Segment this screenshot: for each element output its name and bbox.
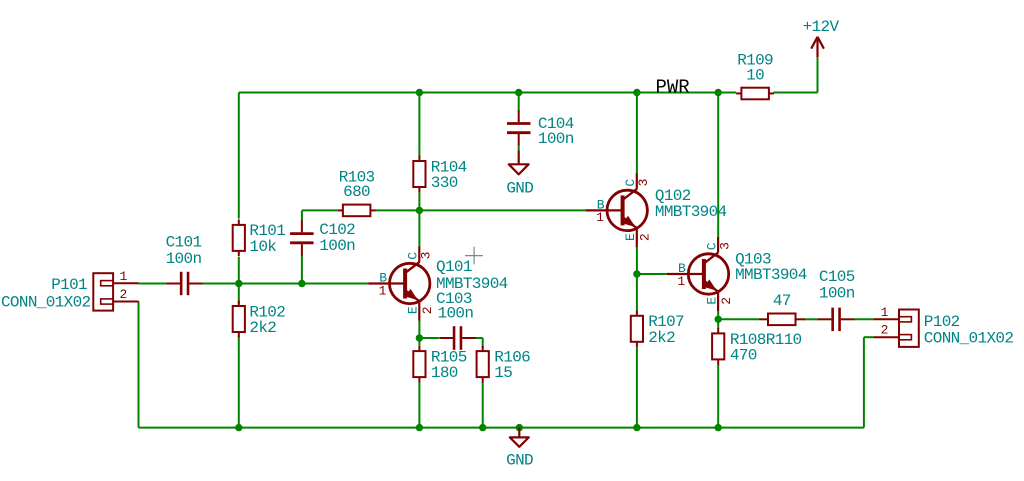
- wire to P102 pin2: [864, 336, 873, 338]
- resistor R103: [338, 205, 376, 217]
- wire output node to R108: [717, 319, 719, 328]
- junction: [633, 89, 640, 96]
- wire corner down to R106: [482, 338, 484, 348]
- wire top rail to Q102 collector: [636, 93, 638, 174]
- wire P101 pin2 down: [138, 302, 140, 428]
- svg-text:2: 2: [719, 297, 734, 305]
- resistor R104: [413, 156, 425, 193]
- ground symbol GND (bottom rail): [510, 428, 529, 447]
- svg-text:1: 1: [881, 305, 889, 320]
- capacitor C105: [818, 308, 854, 332]
- wire output node to R110: [718, 318, 759, 320]
- wire R105 to bottom rail: [418, 382, 420, 427]
- wire up to P102 pin2: [863, 337, 865, 427]
- junction: [479, 424, 486, 431]
- wire GND bottom rail: [139, 427, 864, 429]
- svg-text:680: 680: [343, 183, 370, 201]
- connector P102 (CONN_01X02): [873, 310, 919, 347]
- wire R109 to +12V corner: [774, 92, 818, 94]
- wire C102 to base node: [301, 256, 303, 284]
- Q101 pin labels B/1, C/3, E/2: [379, 252, 436, 315]
- junction: [633, 270, 640, 277]
- svg-text:3: 3: [419, 252, 434, 260]
- junction: [416, 334, 423, 341]
- wire node to R105: [418, 338, 420, 346]
- svg-text:10: 10: [746, 66, 764, 84]
- mouse crosshair cursor: [465, 247, 483, 265]
- resistor R106: [477, 346, 489, 383]
- wire top rail down to R101: [238, 93, 240, 219]
- wire R108 to bottom rail: [717, 365, 719, 428]
- junction: [715, 424, 722, 431]
- svg-text:2: 2: [881, 323, 889, 338]
- svg-text:1: 1: [119, 269, 127, 284]
- svg-text:330: 330: [431, 174, 458, 192]
- Q102 pin labels B/1, C/3, E/2: [596, 178, 653, 241]
- svg-text:2: 2: [638, 233, 653, 241]
- svg-text:100n: 100n: [438, 304, 474, 322]
- svg-text:C105: C105: [819, 268, 855, 286]
- svg-text:1: 1: [677, 274, 685, 289]
- junction: [235, 424, 242, 431]
- svg-text:E: E: [405, 306, 420, 314]
- junction: [416, 89, 423, 96]
- connector P101 (CONN_01X02): [93, 273, 138, 310]
- svg-text:10k: 10k: [249, 238, 276, 256]
- ground symbol GND (top, under C104): [509, 151, 529, 175]
- capacitor C104: [507, 110, 531, 146]
- wire Q101 emitter to node: [418, 321, 420, 339]
- svg-text:P102: P102: [924, 313, 960, 331]
- svg-text:100n: 100n: [166, 250, 202, 268]
- wire P101 pin1 to C101: [139, 283, 168, 285]
- wire C102 corner to R103: [302, 209, 338, 211]
- svg-text:15: 15: [494, 364, 512, 382]
- wire Q103 emitter to output node: [717, 311, 719, 319]
- wire R104 to node: [418, 192, 420, 210]
- wire to Q103 base lead: [637, 273, 667, 275]
- svg-text:2: 2: [420, 306, 435, 314]
- wire R110 to C105: [804, 318, 819, 320]
- wire node to R107: [636, 274, 638, 311]
- resistor R109: [736, 88, 774, 100]
- svg-text:P101: P101: [51, 276, 87, 294]
- svg-text:47: 47: [773, 292, 791, 310]
- svg-text:PWR: PWR: [656, 77, 690, 99]
- transistor Q102 (NPN MMBT3904): [586, 173, 648, 247]
- svg-text:180: 180: [431, 364, 458, 382]
- resistor R108: [712, 328, 724, 365]
- svg-text:100n: 100n: [819, 285, 855, 303]
- wire top rail to R104: [418, 93, 420, 157]
- wire C105 to P102 pin1: [854, 318, 874, 320]
- resistor R102: [233, 301, 245, 338]
- wire C101 to Q101 base lead: [202, 283, 368, 285]
- svg-text:CONN_01X02: CONN_01X02: [1, 293, 91, 311]
- svg-text:C101: C101: [166, 233, 202, 251]
- wire R102 to bottom rail: [238, 335, 240, 427]
- junction: [515, 89, 522, 96]
- resistor R110: [759, 314, 805, 326]
- svg-text:MMBT3904: MMBT3904: [735, 266, 807, 284]
- svg-text:2k2: 2k2: [249, 319, 276, 337]
- svg-text:2: 2: [119, 287, 127, 302]
- capacitor C103: [439, 326, 475, 350]
- power symbol +12V: [811, 37, 824, 57]
- svg-text:1: 1: [596, 210, 604, 225]
- junction: [416, 424, 423, 431]
- resistor R101: [233, 220, 245, 257]
- wire up to +12V symbol: [817, 57, 819, 92]
- svg-text:3: 3: [718, 242, 733, 250]
- svg-text:E: E: [623, 233, 638, 241]
- wire R103 to node: [376, 209, 420, 211]
- svg-text:GND: GND: [506, 452, 533, 470]
- capacitor C102: [290, 220, 314, 256]
- transistor Q103 (NPN MMBT3904): [667, 237, 729, 311]
- wire R106 to bottom rail: [482, 382, 484, 427]
- junction: [416, 207, 423, 214]
- wire top rail to C104: [518, 93, 520, 112]
- junction: [298, 280, 305, 287]
- svg-text:100n: 100n: [319, 237, 355, 255]
- svg-text:GND: GND: [506, 179, 533, 197]
- svg-text:+12V: +12V: [803, 18, 840, 36]
- wire C103 to R106 corner: [473, 337, 482, 339]
- resistor R105: [413, 346, 425, 383]
- wire PWR top rail: [239, 92, 736, 94]
- transistor Q101 (NPN MMBT3904): [368, 247, 430, 321]
- wire top rail to Q103 collector: [717, 93, 719, 238]
- capacitor C101: [166, 272, 202, 295]
- wire R101 to base node: [238, 257, 240, 284]
- svg-text:2k2: 2k2: [648, 329, 675, 347]
- svg-text:CONN_01X02: CONN_01X02: [924, 330, 1014, 348]
- wire node to Q102 base lead: [419, 209, 585, 211]
- resistor R107: [631, 310, 643, 347]
- svg-text:1: 1: [379, 283, 387, 298]
- svg-text:470: 470: [730, 346, 757, 364]
- junction: [715, 89, 722, 96]
- wire C104 to GND symbol: [518, 146, 520, 151]
- wire node to Q101 collector: [418, 210, 420, 246]
- svg-text:E: E: [704, 297, 719, 305]
- wire Q102 emitter down: [636, 248, 638, 275]
- svg-text:MMBT3904: MMBT3904: [655, 203, 727, 221]
- wire base node to R102: [238, 284, 240, 304]
- svg-text:3: 3: [636, 178, 651, 186]
- junction: [235, 280, 242, 287]
- svg-text:Q101: Q101: [436, 258, 472, 276]
- wire R107 to bottom rail: [636, 347, 638, 427]
- junction: [715, 316, 722, 323]
- wire node to C103: [419, 337, 439, 339]
- wire corner to C102 top: [301, 210, 303, 221]
- junction: [516, 424, 523, 431]
- junction: [633, 424, 640, 431]
- svg-text:100n: 100n: [538, 130, 574, 148]
- Q103 pin labels B/1, C/3, E/2: [677, 242, 734, 305]
